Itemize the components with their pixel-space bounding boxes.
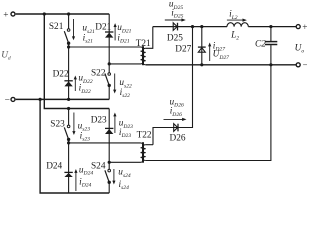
svg-text:+: +: [3, 11, 8, 21]
switch S22: [105, 73, 111, 87]
terminal + output: [296, 25, 300, 29]
node junction D26 branch on cathode rail: [191, 25, 194, 28]
svg-text:iD24: iD24: [79, 177, 91, 188]
svg-text:us24: us24: [118, 168, 131, 179]
node junction D22 minus rail: [67, 98, 70, 101]
svg-text:iD22: iD22: [79, 84, 91, 95]
wire D27 branch vertical: [201, 27, 203, 65]
arrow for S23 voltage (down): [72, 113, 75, 136]
wire minus rail: [16, 98, 110, 100]
svg-text:−: −: [5, 95, 10, 105]
arrow for S22 voltage (down): [113, 74, 116, 94]
node junction C2 return rail: [269, 63, 272, 66]
node junction leg1 lower rail: [67, 107, 70, 110]
arrow for S21 voltage (down): [72, 19, 75, 40]
arrow for i_L2 (right): [227, 19, 247, 22]
svg-text:is21: is21: [83, 33, 94, 44]
node junction leg1 top rail: [67, 12, 70, 15]
node junction D27 branch on cathode rail: [200, 25, 203, 28]
svg-text:Uo: Uo: [295, 43, 305, 54]
svg-text:is22: is22: [120, 88, 131, 99]
node P2 junction with wire to T21 primary bottom: [108, 62, 111, 65]
wire lower leg1 (S23/D24): [68, 109, 70, 194]
node P2' junction with wire to T22 primary bottom: [108, 161, 111, 164]
svg-text:D26: D26: [170, 133, 186, 143]
wire plus bus vertical to lower bridge: [44, 14, 109, 109]
svg-text:is23: is23: [80, 131, 91, 142]
node junction minus rail minus bus: [39, 98, 42, 101]
svg-text:D23: D23: [91, 116, 107, 126]
terminal - input: [11, 97, 15, 101]
wire upper leg1 (S21/D22): [68, 14, 70, 99]
svg-text:D27: D27: [175, 44, 191, 54]
arrow for D21 voltage (up): [114, 23, 117, 40]
arrow for i_D25 (right): [165, 18, 186, 21]
svg-text:Ud: Ud: [1, 50, 11, 61]
wire P2 node to T21 primary bottom: [109, 63, 140, 65]
wire C2 bottom down to T22 secondary return: [146, 45, 271, 160]
svg-text:C2: C2: [255, 39, 266, 49]
terminal - output: [296, 63, 300, 67]
arrow for D23 voltage (up): [113, 113, 116, 134]
arrow for i_D26 (right): [164, 118, 187, 121]
arrow for D24 voltage (up): [74, 169, 77, 191]
arrow for i_D27 (up): [208, 43, 211, 62]
svg-text:L2: L2: [230, 31, 239, 42]
inductor L2: [227, 23, 248, 27]
svg-text:iL2: iL2: [229, 10, 238, 21]
transformer T21: [141, 46, 146, 65]
wire T22 secondary top stub: [146, 144, 153, 146]
wire top rail from + input: [16, 13, 110, 15]
arrow for S24 voltage (down): [112, 169, 115, 185]
node junction C2 top on cathode rail: [269, 25, 272, 28]
switch S21: [64, 29, 70, 45]
wire P1 node to T21 primary top: [69, 46, 141, 48]
svg-text:D24: D24: [46, 162, 62, 172]
wire lower leg2 (D23/S24): [108, 109, 110, 194]
node P1' junction with wire to T22 primary top: [67, 141, 70, 144]
svg-text:iD21: iD21: [117, 33, 129, 44]
terminal + input: [11, 12, 15, 16]
svg-text:S23: S23: [50, 119, 65, 129]
node P1 junction with wire to T21 primary top: [67, 45, 70, 48]
arrow for D22 voltage (up): [74, 76, 77, 92]
switch S24: [105, 169, 111, 184]
svg-text:D22: D22: [53, 70, 69, 80]
svg-text:+: +: [302, 23, 307, 33]
wire P1' node to T22 primary top: [69, 142, 141, 144]
svg-text:S22: S22: [91, 69, 106, 79]
wire T21 secondary top to D25 rail: [146, 27, 153, 49]
diode D25: [173, 23, 177, 31]
svg-text:S24: S24: [91, 162, 106, 172]
diode D21: [105, 32, 113, 38]
wire output cathode rail (D25 to L2 to +out): [153, 26, 297, 28]
svg-text:S21: S21: [49, 22, 64, 32]
wire upper leg2 (D21/S22): [108, 14, 110, 99]
svg-text:D21: D21: [95, 22, 111, 32]
capacitor C2: [265, 42, 277, 45]
svg-text:T22: T22: [137, 131, 152, 141]
svg-text:T21: T21: [136, 39, 151, 49]
svg-text:−: −: [303, 61, 307, 71]
wire C2 branch top: [270, 27, 272, 41]
wire P2' node to T22 primary bottom: [109, 161, 140, 163]
svg-text:is24: is24: [119, 180, 130, 191]
diode D23: [105, 128, 113, 134]
transformer T22: [141, 142, 146, 163]
diode D22: [64, 81, 72, 87]
wire D26 branch vertical from cathode rail: [153, 27, 193, 145]
diode D24: [64, 172, 72, 177]
switch S23: [64, 125, 70, 141]
diode D26: [174, 124, 178, 132]
diode D27: [198, 47, 206, 52]
node junction top rail plus bus: [43, 12, 46, 15]
svg-text:D25: D25: [167, 33, 183, 43]
node junction D27 return rail: [200, 63, 203, 66]
wire minus bus vertical to lower bridge: [40, 99, 109, 193]
wire secondary return rail (T21 bottom to -out): [146, 64, 297, 66]
